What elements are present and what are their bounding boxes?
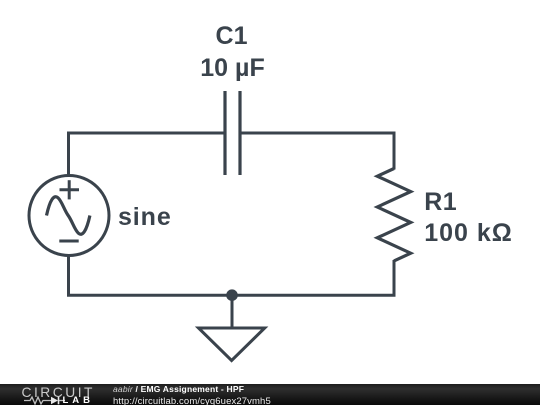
label sine bbox=[118, 205, 172, 230]
voltage source minus sign bbox=[59, 240, 78, 243]
label R1 bbox=[424, 190, 457, 215]
node junction dot bbox=[226, 289, 238, 301]
voltage source V1 circle bbox=[29, 176, 109, 256]
credit text bbox=[113, 385, 271, 405]
label C1 bbox=[162, 24, 302, 49]
voltage source V1 sine wave bbox=[47, 197, 90, 235]
wire bottom (source bottom, bottom-left corner, bottom wire, up to resistor bottom) bbox=[69, 255, 395, 295]
footer bar bbox=[0, 384, 540, 405]
wire top-left (capacitor left plate to top-left corner, down to source top) bbox=[69, 133, 226, 176]
CircuitLab logo CIRCUIT text bbox=[22, 386, 95, 400]
value 10 µF bbox=[163, 56, 303, 81]
CircuitLab logo LAB text bbox=[63, 396, 95, 405]
CircuitLab logo symbol bbox=[0, 384, 100, 405]
wire top-right (capacitor right plate to top-right corner, down to resistor) bbox=[240, 133, 394, 170]
ground stub wire bbox=[231, 295, 234, 328]
ground symbol bbox=[199, 328, 265, 361]
value 100 kΩ bbox=[424, 221, 513, 246]
resistor R1 bbox=[377, 169, 410, 261]
voltage source plus sign bbox=[60, 180, 80, 199]
capacitor C1 bbox=[225, 91, 240, 175]
